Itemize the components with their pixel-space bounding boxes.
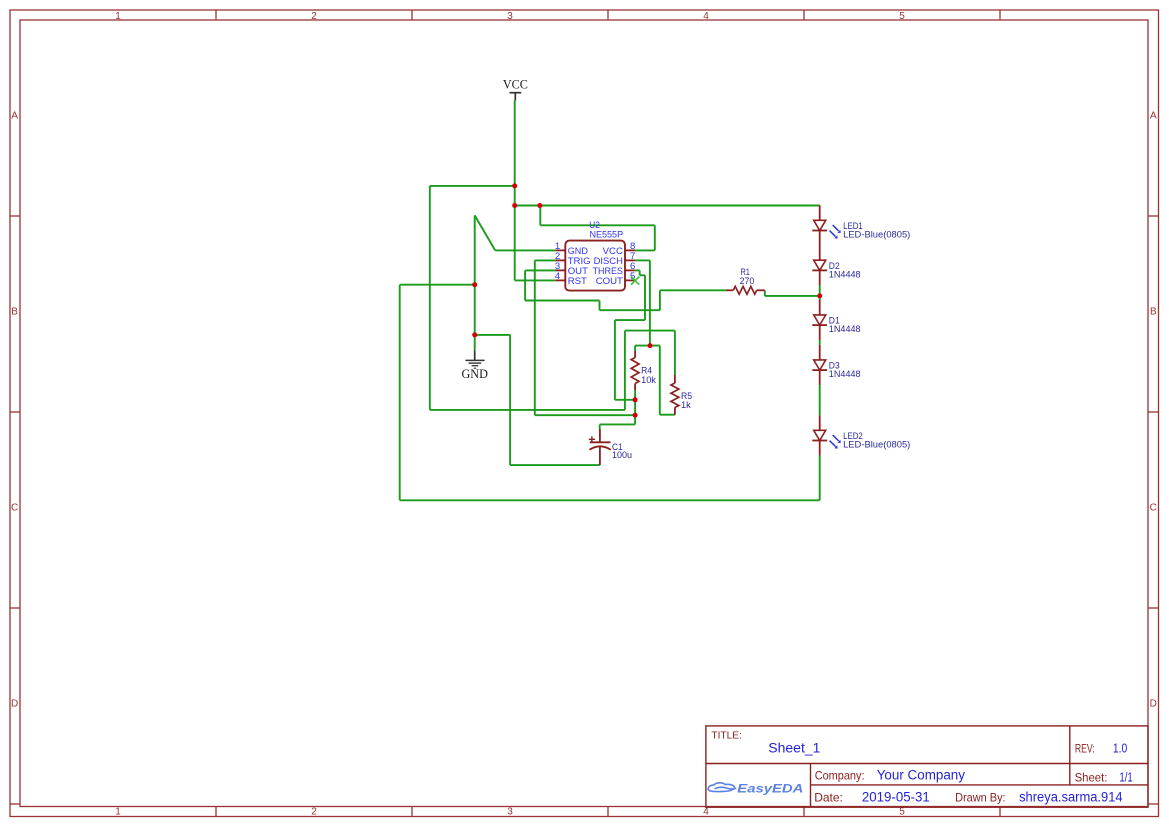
svg-text:D: D bbox=[1150, 699, 1157, 710]
svg-text:NE555P: NE555P bbox=[590, 229, 624, 240]
svg-text:1N4448: 1N4448 bbox=[829, 269, 861, 279]
svg-text:5: 5 bbox=[899, 11, 905, 22]
svg-text:4: 4 bbox=[555, 271, 561, 282]
svg-text:GND: GND bbox=[461, 367, 488, 381]
svg-text:1: 1 bbox=[115, 807, 121, 818]
svg-text:Company:: Company: bbox=[815, 769, 865, 783]
svg-text:C: C bbox=[1150, 503, 1157, 514]
svg-text:EasyEDA: EasyEDA bbox=[737, 784, 803, 796]
svg-text:Drawn By:: Drawn By: bbox=[955, 791, 1006, 805]
svg-text:4: 4 bbox=[703, 11, 709, 22]
svg-text:1.0: 1.0 bbox=[1113, 742, 1127, 756]
svg-text:B: B bbox=[1150, 307, 1157, 318]
svg-text:TITLE:: TITLE: bbox=[711, 731, 742, 742]
svg-text:Sheet:: Sheet: bbox=[1075, 773, 1108, 785]
svg-text:VCC: VCC bbox=[503, 78, 528, 92]
svg-text:COUT: COUT bbox=[596, 276, 623, 287]
svg-text:3: 3 bbox=[507, 11, 513, 22]
svg-text:2: 2 bbox=[311, 11, 317, 22]
svg-text:2019-05-31: 2019-05-31 bbox=[862, 790, 930, 805]
svg-text:270: 270 bbox=[740, 276, 755, 286]
svg-text:4: 4 bbox=[703, 807, 709, 818]
svg-text:1: 1 bbox=[115, 11, 121, 22]
svg-text:100u: 100u bbox=[612, 450, 632, 460]
svg-text:3: 3 bbox=[507, 807, 513, 818]
svg-text:10k: 10k bbox=[641, 375, 656, 385]
svg-text:2: 2 bbox=[311, 807, 317, 818]
svg-text:C: C bbox=[11, 503, 18, 514]
svg-text:5: 5 bbox=[899, 807, 905, 818]
svg-text:Date:: Date: bbox=[814, 791, 843, 805]
svg-text:1N4448: 1N4448 bbox=[829, 324, 861, 334]
svg-text:shreya.sarma.914: shreya.sarma.914 bbox=[1019, 790, 1123, 805]
svg-text:B: B bbox=[11, 307, 18, 318]
svg-text:LED-Blue(0805): LED-Blue(0805) bbox=[843, 230, 910, 240]
svg-text:D: D bbox=[11, 699, 18, 710]
svg-text:1/1: 1/1 bbox=[1119, 771, 1132, 785]
svg-text:RST: RST bbox=[568, 276, 587, 287]
svg-text:A: A bbox=[1150, 111, 1157, 122]
svg-text:1N4448: 1N4448 bbox=[829, 369, 861, 379]
svg-text:REV:: REV: bbox=[1075, 744, 1095, 756]
svg-text:Sheet_1: Sheet_1 bbox=[768, 739, 820, 755]
svg-text:Your Company: Your Company bbox=[877, 768, 966, 783]
svg-text:1k: 1k bbox=[681, 400, 691, 410]
svg-text:A: A bbox=[11, 111, 18, 122]
svg-text:LED-Blue(0805): LED-Blue(0805) bbox=[843, 440, 910, 450]
